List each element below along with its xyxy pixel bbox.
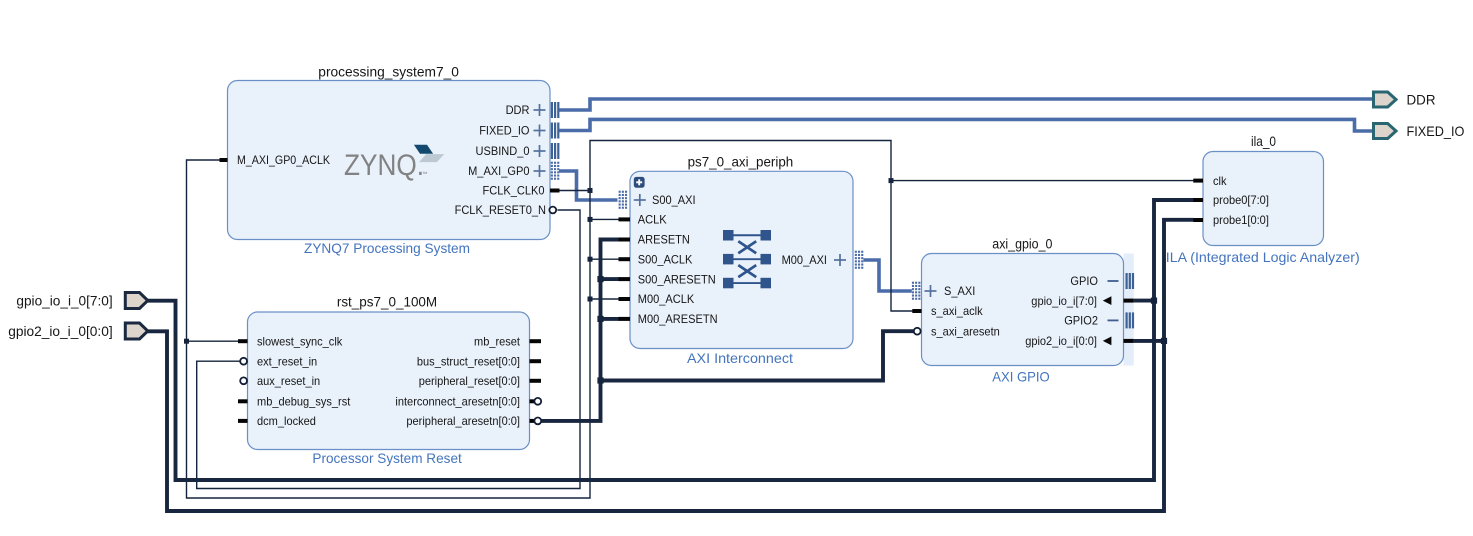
svg-text:peripheral_reset[0:0]: peripheral_reset[0:0] (419, 374, 520, 388)
svg-text:bus_struct_reset[0:0]: bus_struct_reset[0:0] (417, 354, 520, 368)
svg-text:GPIO: GPIO (1070, 274, 1098, 288)
svg-text:probe1[0:0]: probe1[0:0] (1213, 213, 1269, 227)
svg-text:gpio_io_i[7:0]: gpio_io_i[7:0] (1031, 294, 1097, 308)
svg-text:gpio2_io_i_0[0:0]: gpio2_io_i_0[0:0] (8, 323, 113, 339)
svg-text:interconnect_aresetn[0:0]: interconnect_aresetn[0:0] (395, 395, 520, 409)
svg-text:Processor System Reset: Processor System Reset (312, 450, 461, 466)
svg-text:M_AXI_GP0: M_AXI_GP0 (468, 164, 530, 178)
svg-text:gpio2_io_i[0:0]: gpio2_io_i[0:0] (1025, 334, 1097, 348)
svg-text:gpio_io_i_0[7:0]: gpio_io_i_0[7:0] (16, 293, 112, 309)
svg-text:clk: clk (1213, 174, 1227, 188)
svg-text:USBIND_0: USBIND_0 (476, 144, 530, 158)
svg-text:AXI GPIO: AXI GPIO (992, 369, 1050, 385)
svg-text:M_AXI_GP0_ACLK: M_AXI_GP0_ACLK (237, 153, 330, 167)
svg-text:S_AXI: S_AXI (944, 284, 975, 298)
svg-text:ILA (Integrated Logic Analyzer: ILA (Integrated Logic Analyzer) (1166, 249, 1360, 265)
svg-text:S00_ARESETN: S00_ARESETN (638, 272, 716, 286)
svg-text:peripheral_aresetn[0:0]: peripheral_aresetn[0:0] (406, 414, 520, 428)
svg-text:DDR: DDR (1407, 92, 1436, 108)
svg-text:FIXED_IO: FIXED_IO (1407, 123, 1465, 139)
svg-text:FCLK_CLK0: FCLK_CLK0 (483, 184, 545, 198)
svg-text:DDR: DDR (506, 103, 530, 117)
svg-text:ARESETN: ARESETN (638, 233, 690, 247)
svg-text:GPIO2: GPIO2 (1064, 314, 1098, 328)
svg-text:M00_AXI: M00_AXI (782, 253, 827, 267)
svg-text:AXI Interconnect: AXI Interconnect (687, 350, 793, 366)
svg-text:mb_reset: mb_reset (474, 334, 521, 348)
svg-text:s_axi_aclk: s_axi_aclk (931, 304, 984, 318)
svg-text:FCLK_RESET0_N: FCLK_RESET0_N (455, 203, 546, 217)
svg-text:axi_gpio_0: axi_gpio_0 (992, 235, 1052, 251)
svg-text:aux_reset_in: aux_reset_in (257, 374, 320, 388)
svg-text:mb_debug_sys_rst: mb_debug_sys_rst (257, 395, 351, 409)
svg-text:M00_ACLK: M00_ACLK (638, 292, 695, 306)
svg-text:rst_ps7_0_100M: rst_ps7_0_100M (337, 294, 437, 310)
svg-text:™: ™ (422, 172, 428, 178)
svg-text:slowest_sync_clk: slowest_sync_clk (257, 334, 343, 348)
svg-text:ps7_0_axi_periph: ps7_0_axi_periph (688, 153, 794, 169)
svg-text:ext_reset_in: ext_reset_in (257, 354, 317, 368)
svg-text:probe0[7:0]: probe0[7:0] (1213, 193, 1269, 207)
svg-text:ZYNQ.: ZYNQ. (344, 149, 424, 182)
svg-text:dcm_locked: dcm_locked (257, 414, 316, 428)
svg-text:ZYNQ7 Processing System: ZYNQ7 Processing System (304, 240, 470, 256)
svg-text:ACLK: ACLK (638, 213, 667, 227)
svg-text:S00_AXI: S00_AXI (652, 193, 696, 207)
svg-text:ila_0: ila_0 (1251, 133, 1276, 149)
svg-text:FIXED_IO: FIXED_IO (479, 124, 529, 138)
svg-text:M00_ARESETN: M00_ARESETN (638, 312, 718, 326)
svg-text:s_axi_aresetn: s_axi_aresetn (931, 324, 1000, 338)
svg-text:processing_system7_0: processing_system7_0 (318, 63, 459, 79)
svg-text:S00_ACLK: S00_ACLK (638, 252, 693, 266)
